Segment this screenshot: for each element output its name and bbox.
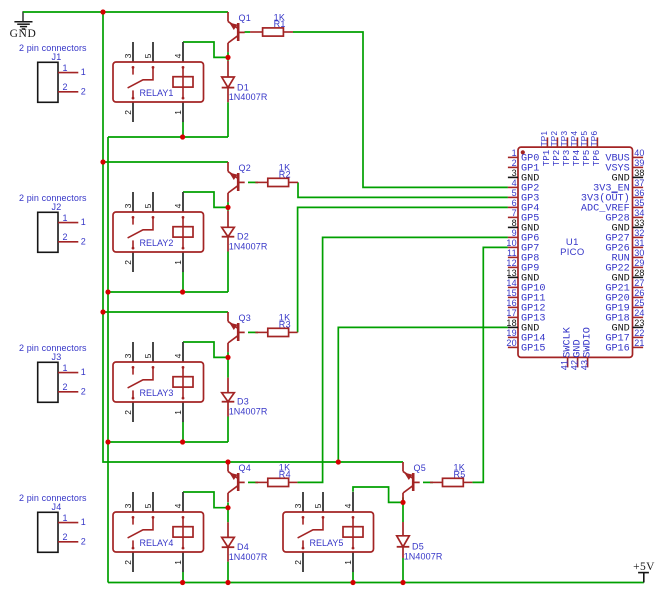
- svg-text:3: 3: [123, 53, 133, 58]
- resistor R2 1K: [255, 163, 298, 187]
- wire +5V bottom rail: [108, 582, 644, 584]
- node RELAY3 pin1 / coil rail: [180, 439, 185, 444]
- wire R1 to GP2 pin 4: [293, 32, 508, 187]
- svg-text:2: 2: [123, 410, 133, 415]
- transistor Q1: [228, 12, 251, 52]
- svg-text:7: 7: [512, 208, 517, 218]
- svg-text:37: 37: [634, 178, 644, 188]
- svg-text:5: 5: [512, 188, 517, 198]
- transistor Q4: [228, 462, 251, 502]
- wire RELAY2 coil rail: [108, 291, 228, 293]
- relay RELAY3: [113, 342, 204, 422]
- svg-text:43: 43: [580, 360, 590, 370]
- wire Q3 base to R3: [248, 331, 258, 333]
- node RELAY5 pin1 / +5V rail: [350, 580, 355, 585]
- wire R2 to GP3 pin 5: [298, 182, 508, 197]
- svg-text:TP2: TP2: [550, 131, 559, 147]
- svg-text:32: 32: [634, 228, 644, 238]
- svg-text:36: 36: [634, 188, 644, 198]
- svg-text:2: 2: [293, 560, 303, 565]
- svg-text:SWDIO: SWDIO: [583, 327, 594, 358]
- wire RELAY5 pin1 drop: [352, 572, 354, 583]
- wire Q4 collector to D4: [227, 502, 229, 522]
- node rail B / RELAY2 coil rail: [105, 289, 110, 294]
- svg-text:30: 30: [634, 248, 644, 258]
- svg-text:13: 13: [506, 268, 516, 278]
- svg-text:39: 39: [634, 158, 644, 168]
- relay RELAY1: [113, 42, 204, 122]
- svg-text:8: 8: [512, 218, 517, 228]
- node rail A / Q3 emitter: [100, 309, 105, 314]
- svg-text:5: 5: [143, 353, 153, 358]
- svg-text:20: 20: [506, 338, 516, 348]
- wire Q1 collector to D1: [227, 52, 229, 61]
- svg-text:1N4007R: 1N4007R: [229, 406, 268, 416]
- svg-text:1: 1: [81, 67, 86, 77]
- node Q4 emitter / GND row: [225, 459, 230, 464]
- svg-text:1: 1: [343, 560, 353, 565]
- wire R5 to GP7 pin 10: [472, 247, 508, 482]
- svg-text:1: 1: [62, 213, 67, 223]
- svg-text:R2: R2: [279, 169, 291, 179]
- node GND top rail / rail A: [100, 9, 105, 14]
- svg-text:2: 2: [62, 532, 67, 542]
- svg-text:J1: J1: [51, 52, 61, 62]
- node D5 / +5V rail: [400, 580, 405, 585]
- svg-text:RELAY3: RELAY3: [140, 388, 174, 398]
- svg-text:3: 3: [123, 353, 133, 358]
- wire D4 anode to +5V rail: [227, 562, 229, 583]
- svg-text:1: 1: [173, 560, 183, 565]
- svg-text:35: 35: [634, 198, 644, 208]
- svg-text:2: 2: [81, 86, 86, 96]
- svg-text:33: 33: [634, 218, 644, 228]
- wire Q2 emitter feed: [103, 161, 228, 163]
- node Q3 collector / D3 / RELAY3 coil: [225, 355, 230, 360]
- resistor R4 1K: [255, 463, 297, 487]
- svg-text:1: 1: [173, 110, 183, 115]
- wire Q4 base to R4: [248, 481, 258, 483]
- svg-text:34: 34: [634, 208, 644, 218]
- wire Q1 base to R1: [245, 31, 251, 33]
- svg-text:16: 16: [506, 298, 516, 308]
- node D4 / +5V rail: [225, 580, 230, 585]
- svg-text:2: 2: [123, 110, 133, 115]
- diode D3 1N4007R: [222, 378, 268, 417]
- svg-text:TP6: TP6: [590, 131, 599, 147]
- node Q4 collector / D4 / RELAY4 coil: [225, 505, 230, 510]
- svg-text:22: 22: [634, 328, 644, 338]
- svg-text:2: 2: [62, 232, 67, 242]
- svg-text:TP3: TP3: [560, 131, 569, 147]
- svg-text:27: 27: [634, 278, 644, 288]
- node RELAY2 pin1 / coil rail: [180, 289, 185, 294]
- svg-text:42: 42: [570, 360, 580, 370]
- svg-text:5: 5: [143, 53, 153, 58]
- svg-text:10: 10: [506, 238, 516, 248]
- wire Q2 collector to D2: [227, 202, 229, 211]
- svg-text:4: 4: [173, 353, 183, 358]
- svg-text:14: 14: [506, 278, 516, 288]
- wire D5 anode to +5V rail: [402, 558, 404, 583]
- svg-text:23: 23: [634, 318, 644, 328]
- connector J3: [19, 343, 87, 402]
- wire D2 anode to coil rail: [227, 252, 229, 293]
- svg-text:1: 1: [81, 217, 86, 227]
- svg-text:RELAY4: RELAY4: [140, 538, 174, 548]
- svg-text:2: 2: [62, 82, 67, 92]
- svg-text:2: 2: [512, 158, 517, 168]
- svg-text:5: 5: [143, 503, 153, 508]
- svg-text:25: 25: [634, 298, 644, 308]
- svg-text:J2: J2: [51, 202, 61, 212]
- wire RELAY1 pin4 to Q1 collector: [183, 42, 228, 57]
- wire D3 anode to coil rail: [227, 417, 229, 443]
- svg-text:PICO: PICO: [560, 247, 584, 258]
- wire R4 to GP6 pin 9: [297, 237, 508, 482]
- node Q5 collector / D5 / RELAY5 coil: [400, 500, 405, 505]
- node rail B / RELAY3 coil rail: [105, 439, 110, 444]
- svg-text:TP1: TP1: [540, 131, 549, 147]
- wire +5V rail B vertical: [107, 137, 109, 583]
- wire RELAY2 pin1 drop: [182, 272, 184, 293]
- svg-text:2: 2: [81, 536, 86, 546]
- ground: [10, 11, 37, 40]
- connector J2: [19, 193, 87, 252]
- wire Q2 base to R2: [248, 181, 258, 183]
- svg-text:4: 4: [343, 503, 353, 508]
- svg-text:1: 1: [81, 367, 86, 377]
- svg-text:R4: R4: [279, 469, 291, 479]
- wire GND to Q1 emitter: [23, 11, 228, 13]
- svg-text:5: 5: [313, 503, 323, 508]
- svg-text:2: 2: [81, 236, 86, 246]
- svg-text:R1: R1: [274, 19, 286, 29]
- svg-text:24: 24: [634, 308, 644, 318]
- svg-text:40: 40: [634, 148, 644, 158]
- svg-text:38: 38: [634, 168, 644, 178]
- svg-text:Q5: Q5: [414, 463, 427, 473]
- svg-text:12: 12: [506, 258, 516, 268]
- svg-text:D5: D5: [412, 542, 424, 552]
- connector J4: [19, 493, 87, 552]
- svg-text:D2: D2: [237, 232, 249, 242]
- wire RELAY1 pin1 drop: [182, 122, 184, 138]
- svg-text:41: 41: [560, 360, 570, 370]
- svg-text:1N4007R: 1N4007R: [229, 552, 268, 562]
- svg-text:31: 31: [634, 238, 644, 248]
- svg-text:21: 21: [634, 338, 644, 348]
- svg-text:1: 1: [62, 363, 67, 373]
- svg-text:3: 3: [123, 503, 133, 508]
- svg-text:6: 6: [512, 198, 517, 208]
- svg-text:D1: D1: [237, 82, 249, 92]
- svg-text:9: 9: [512, 228, 517, 238]
- connector J1: [19, 43, 87, 102]
- svg-text:GP16: GP16: [605, 343, 629, 354]
- svg-text:2: 2: [123, 560, 133, 565]
- svg-text:2: 2: [81, 386, 86, 396]
- svg-text:RELAY1: RELAY1: [140, 88, 174, 98]
- relay RELAY5: [283, 492, 374, 572]
- relay RELAY4: [113, 492, 204, 572]
- wire RELAY2 pin4 to Q2 collector: [183, 192, 228, 207]
- svg-text:4: 4: [512, 178, 517, 188]
- svg-text:+5V: +5V: [633, 561, 655, 573]
- wire Q3 collector to D3: [227, 352, 229, 378]
- svg-text:TP5: TP5: [580, 131, 589, 147]
- svg-text:R5: R5: [454, 469, 466, 479]
- svg-text:1N4007R: 1N4007R: [404, 551, 443, 561]
- wire GND net to pin 18: [338, 327, 508, 462]
- microcontroller U1 PICO: [506, 131, 644, 371]
- svg-text:R3: R3: [279, 319, 291, 329]
- wire RELAY4 pin1 drop: [182, 572, 184, 583]
- wire R3 to GP4 pin 6: [298, 207, 508, 332]
- wire GND rail A down left side to Q4/Q5 emitter row: [103, 12, 403, 462]
- svg-text:29: 29: [634, 258, 644, 268]
- svg-text:J3: J3: [51, 352, 61, 362]
- node Q2 collector / D2 / RELAY2 coil: [225, 205, 230, 210]
- wire Q3 emitter feed: [103, 311, 228, 313]
- svg-text:RELAY5: RELAY5: [310, 538, 344, 548]
- svg-text:4: 4: [173, 53, 183, 58]
- svg-text:1N4007R: 1N4007R: [229, 241, 268, 251]
- svg-text:17: 17: [506, 308, 516, 318]
- transistor Q2: [228, 162, 251, 202]
- svg-text:3: 3: [123, 203, 133, 208]
- svg-text:1: 1: [62, 63, 67, 73]
- wire RELAY1 coil rail: [108, 136, 228, 138]
- svg-text:D4: D4: [237, 542, 249, 552]
- transistor Q3: [228, 312, 251, 352]
- svg-text:4: 4: [173, 203, 183, 208]
- wire Q5 base to R5: [423, 481, 433, 483]
- svg-text:1: 1: [81, 517, 86, 527]
- power +5V: [633, 561, 655, 582]
- resistor R3 1K: [255, 313, 297, 337]
- svg-text:3: 3: [293, 503, 303, 508]
- svg-text:11: 11: [507, 248, 517, 258]
- svg-text:1: 1: [173, 410, 183, 415]
- svg-text:RELAY2: RELAY2: [140, 238, 174, 248]
- wire RELAY5 pin4 to Q5 collector: [353, 487, 403, 502]
- diode D1 1N4007R: [222, 61, 268, 102]
- svg-text:5: 5: [143, 203, 153, 208]
- svg-text:TP4: TP4: [570, 131, 579, 147]
- wire RELAY3 pin4 to Q3 collector: [183, 342, 228, 357]
- relay RELAY2: [113, 192, 204, 272]
- svg-text:18: 18: [506, 318, 516, 328]
- svg-text:TP6: TP6: [591, 150, 602, 167]
- wire RELAY3 pin1 drop: [182, 422, 184, 443]
- svg-text:Q1: Q1: [239, 13, 252, 23]
- svg-text:Q4: Q4: [239, 463, 252, 473]
- resistor R5 1K: [430, 463, 472, 487]
- svg-text:1: 1: [173, 260, 183, 265]
- svg-text:1: 1: [512, 148, 517, 158]
- svg-text:J4: J4: [51, 502, 61, 512]
- resistor R1 1K: [250, 12, 293, 36]
- svg-text:GP15: GP15: [521, 343, 545, 354]
- node RELAY1 pin1 / coil rail: [180, 134, 185, 139]
- diode D2 1N4007R: [222, 211, 268, 252]
- svg-text:2: 2: [123, 260, 133, 265]
- wire Q5 collector to D5: [402, 497, 404, 522]
- transistor Q5: [403, 462, 426, 502]
- node Q1 collector / D1 / RELAY1 coil: [225, 55, 230, 60]
- node pin18 GND tap: [336, 459, 341, 464]
- diode D4 1N4007R: [222, 522, 268, 562]
- svg-text:Q2: Q2: [239, 163, 252, 173]
- svg-text:4: 4: [173, 503, 183, 508]
- wire D1 anode to coil rail: [227, 102, 229, 137]
- node rail A / Q2 emitter: [100, 159, 105, 164]
- svg-text:15: 15: [506, 288, 516, 298]
- wire RELAY4 pin4 to Q4 collector: [183, 492, 228, 508]
- svg-text:28: 28: [634, 268, 644, 278]
- svg-text:2: 2: [62, 382, 67, 392]
- svg-text:Q3: Q3: [239, 313, 252, 323]
- svg-text:1: 1: [62, 513, 67, 523]
- svg-text:19: 19: [506, 328, 516, 338]
- wire RELAY3 coil rail: [108, 441, 228, 443]
- svg-text:1N4007R: 1N4007R: [229, 92, 268, 102]
- svg-text:D3: D3: [237, 397, 249, 407]
- svg-text:26: 26: [634, 288, 644, 298]
- svg-text:3: 3: [512, 168, 517, 178]
- svg-text:GND: GND: [10, 28, 37, 40]
- node RELAY4 pin1 / +5V rail: [180, 580, 185, 585]
- diode D5 1N4007R: [397, 522, 443, 561]
